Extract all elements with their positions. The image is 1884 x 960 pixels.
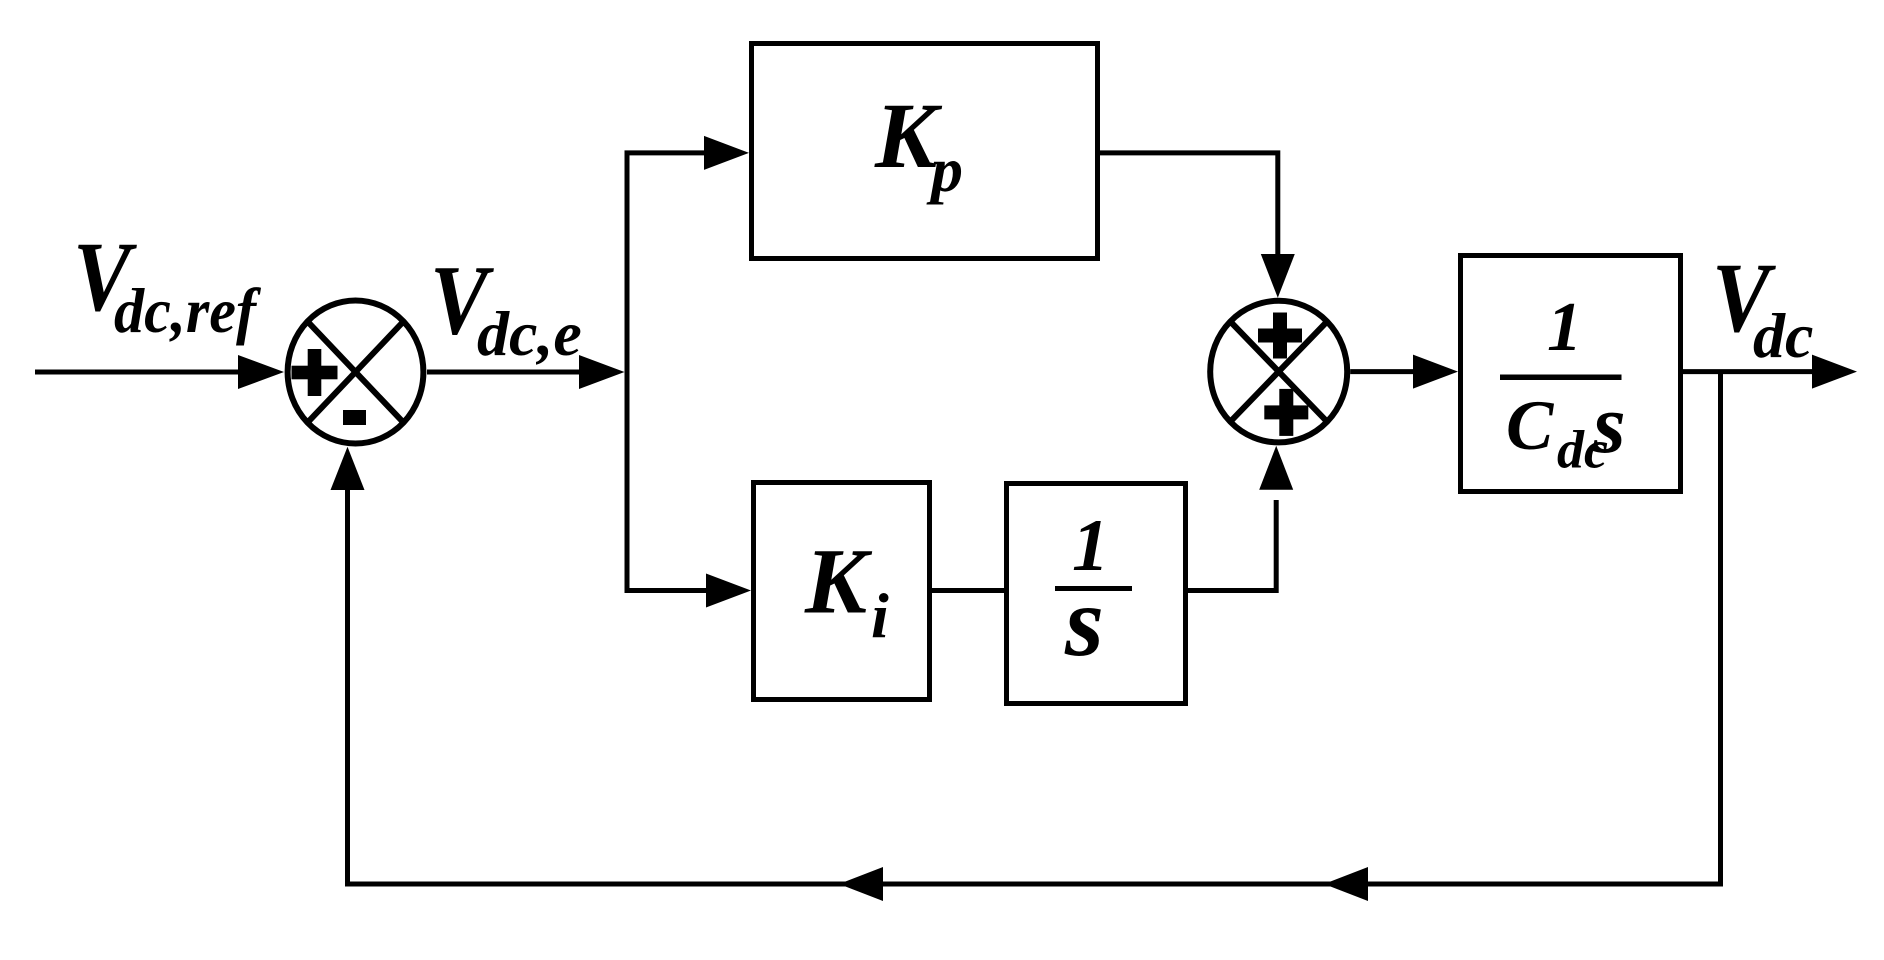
S1 minus sign (bottom quadrant): [343, 410, 366, 425]
summing junction S2 circle: [1210, 301, 1347, 443]
arrowhead on feedback (left segment): [839, 867, 883, 901]
arrowhead at branch node: [579, 355, 625, 389]
wire: output from block with junction and right arrow: [1683, 369, 1813, 374]
svg-text:dc,e: dc,e: [477, 298, 582, 369]
arrowhead on feedback (right segment): [1324, 867, 1368, 901]
block Ki box: [754, 483, 930, 700]
S2 plus sign (top quadrant): [1258, 329, 1302, 343]
svg-text:dc: dc: [1753, 300, 1813, 371]
block Kp box: [752, 44, 1098, 259]
arrowhead into S1 left: [238, 355, 284, 389]
wire: S1 to branch node: [427, 370, 582, 375]
svg-text:s: s: [1592, 378, 1626, 471]
arrowhead into Kp: [704, 136, 749, 170]
svg-text:dc,ref: dc,ref: [114, 275, 261, 346]
wire: feedback path from output junction down, across bottom, and up to S1: [348, 372, 1721, 884]
arrowhead into Ki: [706, 574, 751, 608]
wire: input line into summing junction S1: [35, 370, 240, 375]
arrowhead into S2 top: [1261, 254, 1295, 298]
arrowhead output right: [1812, 355, 1857, 389]
svg-text:K: K: [804, 530, 873, 633]
block 1/Cdcs box: [1461, 256, 1681, 492]
fraction bar of 1/s: [1055, 586, 1132, 591]
wire: branch vertical with top branch to Kp and bottom branch to Ki: [627, 153, 706, 591]
arrowhead into S1 bottom: [331, 447, 365, 490]
svg-text:1: 1: [1547, 289, 1582, 366]
S2 plus sign (bottom quadrant): [1264, 405, 1308, 419]
arrowhead into 1/Cdc s: [1413, 355, 1458, 389]
wire: S2 to 1/Cdc s block: [1350, 369, 1414, 374]
svg-text:i: i: [871, 580, 889, 651]
S2 diagonal X: [1230, 322, 1327, 422]
svg-text:p: p: [926, 134, 963, 205]
summing junction S1 circle: [288, 301, 424, 444]
S1 plus sign (left quadrant): [292, 366, 338, 380]
wire: 1/s output up into S2 bottom: [1188, 500, 1276, 591]
svg-text:s: s: [1064, 566, 1104, 677]
svg-text:C: C: [1506, 387, 1555, 465]
wire: Kp output to S2 top: [1100, 153, 1278, 254]
wire: Ki to 1/s: [932, 588, 1004, 593]
arrowhead into S2 bottom: [1259, 446, 1293, 490]
fraction bar of 1/Cdcs: [1500, 375, 1622, 381]
block 1/s box: [1007, 484, 1186, 704]
S1 diagonal X: [308, 321, 404, 422]
